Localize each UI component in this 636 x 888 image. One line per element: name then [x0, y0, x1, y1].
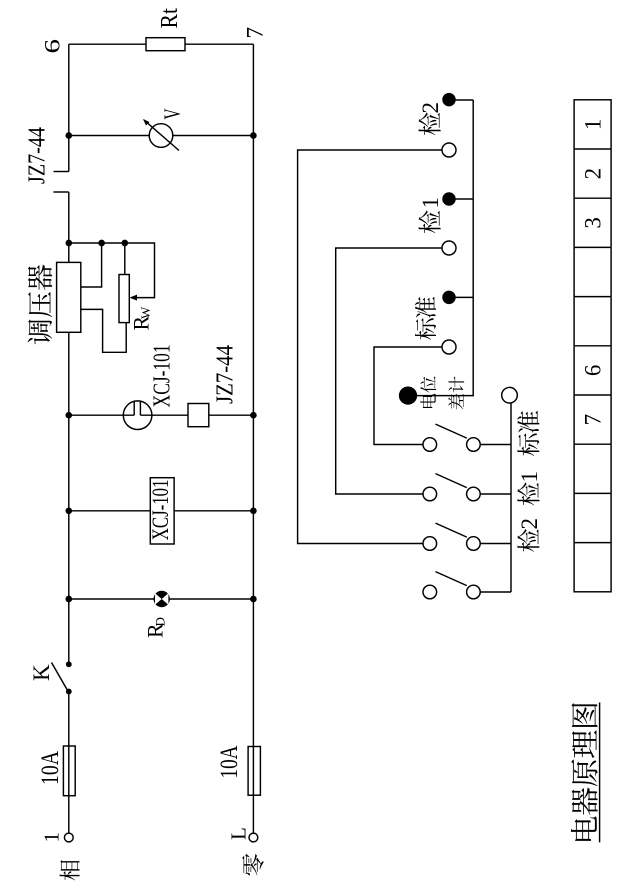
junction dot lamp top — [66, 596, 71, 601]
switch 标准 bottom contact — [467, 438, 481, 452]
contact JZ7-44 tick 1 — [54, 191, 69, 193]
wire selector bus — [412, 100, 473, 396]
switch spare top contact — [423, 585, 437, 599]
potentiometer Rw wiper arrowhead — [130, 295, 138, 301]
svg-text:1: 1 — [517, 471, 542, 483]
contact JZ7-44 tick 2 — [54, 171, 69, 173]
switch 检1 bottom contact — [467, 487, 481, 501]
junction dot lamp bottom — [251, 596, 256, 601]
wire relay branch top — [69, 510, 151, 512]
wire lower bus — [510, 403, 512, 592]
wire galvo branch below coil — [209, 414, 254, 416]
svg-text:2: 2 — [517, 518, 542, 530]
terminal 检2 dot — [443, 94, 455, 106]
title 电器原理图 — [571, 816, 597, 840]
svg-text:7: 7 — [243, 27, 268, 39]
switch 标准 bottom stub — [480, 444, 511, 446]
junction dot galvo top — [66, 413, 71, 418]
svg-text:V: V — [160, 108, 185, 119]
terminal 1 (phase input) — [64, 833, 73, 842]
fuse FU2 10A (bottom rail) — [248, 747, 260, 796]
galvanometer XCJ-101 body — [123, 401, 152, 430]
variac 调压器 body — [57, 262, 81, 332]
terminal strip outline — [574, 100, 611, 592]
label 检2 (switch) — [517, 529, 539, 552]
switch K throw node — [67, 662, 71, 666]
label 调压器 — [28, 320, 53, 345]
wire 检2 dot stub — [449, 99, 473, 101]
svg-text:10A: 10A — [216, 746, 243, 779]
switch 标准 top contact — [423, 438, 437, 452]
terminal 标准 dot — [443, 291, 455, 303]
switch spare bottom stub — [480, 591, 511, 593]
switch 检1 top contact — [423, 487, 437, 501]
svg-text:2: 2 — [418, 102, 443, 114]
wire jumper 标准 to switch — [374, 347, 442, 445]
svg-text:6: 6 — [40, 39, 65, 54]
junction dot voltmeter top — [66, 133, 71, 138]
switch 检2 top contact — [423, 537, 437, 551]
junction dot relay top — [66, 508, 71, 513]
svg-text:L: L — [227, 827, 251, 840]
terminal 标准 circle — [442, 340, 456, 354]
terminal 检2 circle — [442, 143, 456, 157]
junction dot Rw top join — [122, 240, 127, 245]
switch 检1 bottom stub — [480, 493, 511, 495]
svg-text:XCJ-101: XCJ-101 — [150, 344, 176, 407]
wire jumper 检2 to switch — [298, 150, 442, 544]
svg-text:D: D — [153, 617, 168, 626]
relay coil JZ7-44 body — [188, 404, 209, 427]
svg-text:1: 1 — [418, 197, 443, 209]
svg-text:6: 6 — [580, 365, 605, 377]
junction dot tap1 join — [99, 240, 104, 245]
wire jumper 检1 to switch — [336, 248, 442, 494]
terminal strip dividers — [574, 542, 611, 544]
terminal 检1 dot — [443, 193, 455, 205]
wire variac feeder vertical — [69, 243, 155, 298]
voltmeter V body — [149, 124, 173, 148]
wire lamp RD branch — [69, 598, 254, 600]
relay coil XCJ-101 body — [150, 478, 174, 544]
label 检1 (switch) — [517, 483, 539, 506]
switch 检2 bottom stub — [480, 543, 511, 545]
svg-text:10A: 10A — [37, 751, 64, 785]
switch K pivot node — [67, 689, 71, 693]
galvanometer contact bar 1 — [133, 401, 135, 415]
wire 标准 dot stub — [449, 296, 473, 298]
potentiometer Rw body — [119, 275, 129, 323]
wire top rail segment C (JZ7-44 contact to node 6) — [68, 44, 70, 171]
switch 标准 blade — [436, 424, 467, 438]
wire variac tap 2 to Rw left — [81, 309, 126, 352]
label 标准 (switch) — [517, 433, 539, 455]
wire galvo branch top — [69, 414, 134, 416]
svg-text:1: 1 — [580, 119, 605, 131]
wire voltmeter branch — [69, 135, 254, 137]
wire variac tap 1 — [81, 243, 102, 287]
svg-text:XCJ-101: XCJ-101 — [148, 480, 173, 541]
label 零 — [242, 854, 263, 876]
wire Rw right to feeder — [124, 243, 126, 275]
wire 检1 dot stub — [449, 198, 473, 200]
label 检2 — [419, 113, 441, 136]
wire right vertical (node 6 to node 7 through Rt) — [69, 43, 254, 45]
terminal 检1 circle — [442, 241, 456, 255]
switch spare bottom contact — [467, 585, 481, 599]
label 相 — [60, 860, 80, 880]
terminal L (neutral input) — [249, 833, 258, 842]
resistor Rt — [146, 38, 185, 51]
terminal 电位差计 dot — [400, 387, 417, 404]
svg-text:W: W — [138, 306, 153, 319]
svg-text:2: 2 — [580, 168, 605, 180]
switch K blade — [52, 663, 68, 690]
wire galvo branch bottom — [140, 414, 188, 416]
junction dot relay bottom — [251, 508, 256, 513]
lamp RD body — [154, 591, 170, 607]
svg-text:3: 3 — [580, 217, 605, 229]
switch 检2 bottom contact — [467, 537, 481, 551]
svg-text:JZ7-44: JZ7-44 — [213, 345, 239, 404]
voltmeter V needle — [144, 120, 179, 151]
terminal 电位差计 circle — [502, 387, 518, 403]
title underline — [599, 703, 601, 843]
svg-text:Rt: Rt — [157, 8, 183, 29]
label 标准 (pair) — [415, 318, 436, 340]
label 检1 — [419, 211, 441, 234]
junction dot galvo bottom — [251, 413, 256, 418]
wire relay branch bottom — [174, 510, 253, 512]
switch 检1 blade — [436, 474, 467, 488]
junction dot variac feeder on rail — [66, 240, 71, 245]
svg-text:1: 1 — [40, 832, 64, 843]
galvanometer contact bar 2 — [139, 401, 141, 415]
junction dot voltmeter bottom — [251, 133, 256, 138]
voltmeter V needle arrowhead — [143, 119, 150, 126]
wire top rail segment A (terminal 1 to switch K) — [68, 692, 70, 838]
svg-text:JZ7-44: JZ7-44 — [25, 127, 51, 184]
label 电位差计 — [420, 394, 435, 408]
switch spare blade — [436, 572, 467, 586]
wire top rail segment B (switch K to JZ7-44 contact) — [68, 192, 70, 664]
svg-text:K: K — [29, 664, 54, 681]
switch 检2 blade — [436, 523, 467, 537]
wire bottom rail (terminal L to node 7) — [252, 44, 254, 837]
svg-text:7: 7 — [580, 414, 605, 426]
fuse FU1 10A (top rail) — [63, 746, 75, 796]
